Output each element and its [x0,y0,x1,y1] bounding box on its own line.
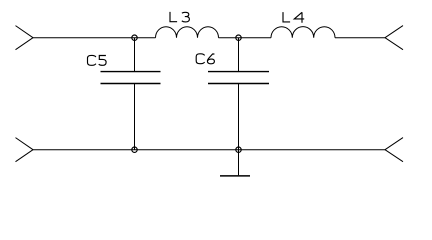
node D junction (bottom of C6) [236,147,241,152]
node A junction (top of C5) [132,35,137,40]
label C5 [88,55,107,65]
port P4 bottom-right connector [385,138,403,162]
wire top rail: P1 to L3 [33,37,156,39]
port P3 bottom-left connector [16,138,34,162]
label L4 [283,12,304,23]
label C6 [196,54,214,64]
port P1 top-left connector [16,26,34,50]
inductor L4 [271,27,335,38]
capacitor C6 [208,38,269,150]
node B junction (top of C6) [236,35,241,40]
node C junction (bottom of C5) [132,147,137,152]
inductor L3 [156,27,219,38]
label L3 [170,12,189,22]
wire top rail: L3 to L4 [219,37,272,39]
capacitor C5 [101,38,161,150]
ground [220,150,250,176]
wire bottom rail: P3 to P4 [33,149,385,151]
port P2 top-right connector [385,26,403,50]
wire top rail: L4 to P2 [335,37,385,39]
